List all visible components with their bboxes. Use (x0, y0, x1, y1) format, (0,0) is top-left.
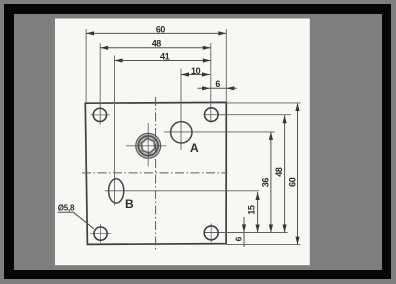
dimension 10 top: line (181, 72, 210, 76)
extension line top edge right (dim 60 right) (226, 102, 300, 104)
svg-text:60: 60 (156, 25, 165, 35)
extension line hole A row right (dim 36 right) (164, 131, 275, 133)
dimension 60 right: text (287, 177, 297, 187)
extension line hole A center (dim 10 top) (180, 69, 182, 151)
svg-text:6: 6 (234, 236, 244, 241)
dimension 60 right: line (295, 103, 299, 245)
dimension 6 top: line with outside arrows (198, 86, 237, 90)
dimension 6 right: text (234, 236, 244, 241)
dimension 60 top: text (156, 25, 165, 35)
vertical centerline of plate (155, 97, 157, 252)
dimension 36 right: line (269, 132, 273, 233)
extension line hole B row right (dim 15 right) (105, 190, 259, 192)
center hole ring (138, 136, 158, 156)
hole TL (corner hole) (93, 108, 106, 121)
extension line plate left edge (dim 60 top) (85, 29, 87, 103)
hole A circle (171, 122, 192, 143)
dimension 6 top: text (215, 79, 220, 89)
crosshair hole BL (90, 224, 111, 243)
hole TR (corner hole) (205, 108, 219, 122)
hole B ellipse (109, 179, 124, 203)
horizontal centerline of plate (82, 172, 228, 174)
svg-text:60: 60 (287, 177, 297, 187)
svg-text:48: 48 (274, 167, 284, 177)
scanned paper sheet (55, 19, 310, 266)
hole BR (corner hole) (204, 226, 218, 240)
svg-text:A: A (190, 141, 199, 155)
extension line top hole row right (dim 48 right) (204, 114, 291, 116)
crosshair hole BR vertical (210, 223, 212, 242)
dimension 41 top: line (115, 58, 211, 62)
extension line hole TL center (dim 48 top) (99, 43, 101, 125)
svg-text:B: B (125, 197, 134, 211)
extension line bottom edge right (dim 60 right) (226, 244, 301, 246)
dimension 48 right: text (274, 167, 284, 177)
extension line hole B center (dim 41 top) (114, 56, 116, 206)
dimension 15 right: line (256, 192, 260, 233)
svg-text:15: 15 (247, 205, 257, 215)
extension line bottom hole row right (dims 6/15/36/48) (204, 232, 288, 234)
dimension 60 top: line (86, 31, 226, 35)
dimension 15 right: text (247, 205, 257, 215)
callout text Ø5,8 (58, 203, 75, 212)
dimension 48 top: line (100, 46, 211, 50)
crosshair hole TL (90, 114, 110, 116)
svg-text:48: 48 (152, 39, 162, 49)
callout leader line for Ø5,8 (58, 212, 94, 229)
crosshair center hole (126, 123, 167, 167)
svg-text:41: 41 (160, 51, 170, 61)
dimension 6 right: line (242, 217, 246, 247)
label A (190, 141, 199, 155)
dimension 10 top: text (191, 66, 201, 76)
extension line plate right edge (225, 29, 227, 103)
center hole hexagon socket (141, 138, 155, 153)
center hole outer circle (136, 133, 161, 158)
svg-text:6: 6 (215, 79, 220, 89)
dimension 48 top: text (152, 39, 162, 49)
dimension 36 right: text (260, 178, 270, 188)
svg-text:Ø5,8: Ø5,8 (58, 203, 75, 212)
svg-text:36: 36 (260, 178, 270, 188)
plate outline (85, 102, 226, 244)
svg-text:10: 10 (191, 66, 201, 76)
hole BL (corner hole) (94, 227, 107, 240)
dimension 48 right: line (283, 115, 287, 232)
dimension 41 top: text (160, 51, 170, 61)
extension line hole TR center (210, 43, 212, 123)
label B (125, 197, 134, 211)
